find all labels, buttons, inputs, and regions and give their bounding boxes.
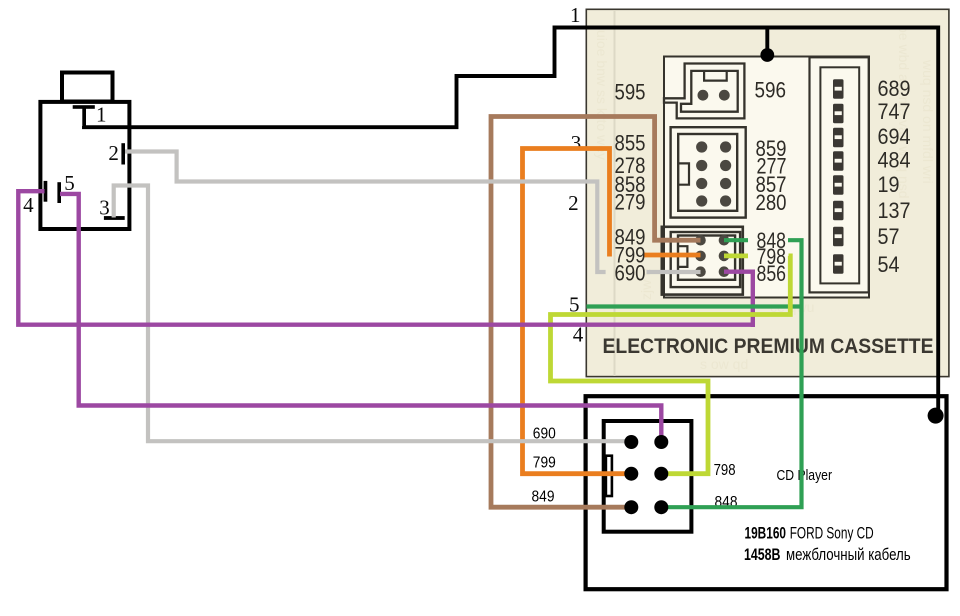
wire 3 grey (P1 pin3 to CD 690) bbox=[114, 186, 632, 442]
pin 279 bbox=[696, 195, 707, 206]
pin 3 (P1) bbox=[104, 216, 125, 220]
svg-text:3: 3 bbox=[99, 196, 110, 220]
connector J1 (595/596 two-pin) outer shell bbox=[664, 64, 744, 119]
pin 595 bbox=[698, 90, 709, 101]
wire 5 purple (P1 pin5 to CD pin) bbox=[60, 194, 661, 441]
svg-text:694: 694 bbox=[878, 124, 911, 149]
svg-text:798: 798 bbox=[714, 462, 736, 479]
pin 280 bbox=[720, 195, 731, 206]
connector J2 keying notch bbox=[678, 163, 689, 184]
svg-text:595: 595 bbox=[615, 80, 646, 105]
CD player box bbox=[586, 396, 947, 589]
svg-text:s ow qd: s ow qd bbox=[700, 356, 748, 372]
wire 799 orange (cassette 799 to CD 799) bbox=[644, 253, 700, 258]
white inner connector panel of cassette unit bbox=[664, 57, 869, 298]
connector J2 inner cavity bbox=[678, 134, 737, 211]
svg-text:5: 5 bbox=[64, 171, 75, 195]
pin 278 bbox=[696, 160, 707, 171]
wire 4 purple riser segment (cassette 856 down) bbox=[724, 272, 753, 327]
svg-text:wuq nsd on mfdl wri: wuq nsd on mfdl wri bbox=[920, 59, 936, 184]
wire 1 junction stub bbox=[765, 28, 769, 50]
pin 857 bbox=[720, 178, 731, 189]
wire 849 brown (cassette 849 to CD 849) bbox=[491, 117, 701, 508]
wire 5 green stub bbox=[587, 304, 804, 308]
connector J4 (8-way edge strip) outer shell bbox=[810, 57, 869, 292]
svg-text:1: 1 bbox=[96, 102, 107, 126]
pin 855 bbox=[696, 141, 707, 152]
node junction on CD box bbox=[928, 408, 944, 424]
pin 5 (P1) bbox=[57, 182, 61, 203]
pin 858 bbox=[696, 178, 707, 189]
connector J3 (6-pin cassette) outermost shell bbox=[662, 227, 743, 295]
svg-text:856: 856 bbox=[757, 261, 787, 286]
svg-text:CD Player: CD Player bbox=[777, 468, 833, 484]
pin 848 bbox=[719, 235, 730, 246]
pin top-right (CD) bbox=[654, 435, 668, 449]
connector P1 top tab bbox=[62, 73, 113, 102]
J4 terminal pins column bbox=[833, 79, 844, 274]
svg-text:689: 689 bbox=[878, 76, 911, 101]
svg-text:FORD Sony CD: FORD Sony CD bbox=[790, 524, 874, 543]
svg-text:690: 690 bbox=[615, 261, 646, 286]
pin 859 bbox=[720, 141, 731, 152]
svg-text:19B160: 19B160 bbox=[745, 524, 787, 543]
pin 690 bbox=[695, 266, 706, 277]
pin 849 bbox=[695, 235, 706, 246]
connector J5 (6-pin CD) shell bbox=[604, 421, 692, 532]
svg-text:3: 3 bbox=[571, 131, 582, 155]
pin 2 (P1) bbox=[121, 143, 125, 164]
cassette unit scanned panel background bbox=[586, 9, 949, 376]
svg-text:19: 19 bbox=[878, 172, 900, 197]
pin 856 bbox=[719, 266, 730, 277]
svg-text:межблочный кабель: межблочный кабель bbox=[786, 545, 911, 564]
pin 798 (CD) bbox=[654, 467, 668, 481]
svg-text:849: 849 bbox=[532, 489, 555, 506]
svg-text:ELECTRONIC PREMIUM CASSETTE: ELECTRONIC PREMIUM CASSETTE bbox=[603, 335, 934, 358]
svg-text:54: 54 bbox=[878, 252, 900, 277]
pin 849 (CD) bbox=[624, 500, 638, 514]
svg-text:1458B: 1458B bbox=[744, 545, 781, 564]
pin 799 (CD) bbox=[624, 467, 638, 481]
svg-text:280: 280 bbox=[756, 190, 787, 215]
connector J2 (8-pin) outer shell bbox=[671, 127, 746, 217]
wire 848 green (cassette 848 to CD 848) bbox=[724, 238, 748, 242]
connector J3 inner cavity bbox=[678, 236, 735, 280]
connector J3 middle shell bbox=[671, 232, 740, 287]
pin 799 bbox=[695, 251, 706, 262]
pin 690 (CD) bbox=[624, 435, 638, 449]
svg-text:57: 57 bbox=[878, 224, 900, 249]
svg-text:596: 596 bbox=[755, 78, 787, 103]
pin 596 bbox=[719, 90, 730, 101]
pin 4 (P1) bbox=[44, 181, 48, 202]
connector J5 keying notch bbox=[606, 456, 612, 496]
connector J1 inner cavity bbox=[681, 71, 738, 112]
connector J3 keying notch bbox=[678, 246, 687, 267]
svg-text:747: 747 bbox=[878, 99, 911, 124]
pin 798 bbox=[719, 251, 730, 262]
wire 2 grey (P1 pin2 to cassette 690) bbox=[125, 152, 606, 273]
pin 848 (CD) bbox=[654, 500, 668, 514]
connector J1 keying notch bbox=[704, 72, 727, 81]
svg-text:2: 2 bbox=[568, 191, 579, 215]
node junction on cassette bbox=[760, 48, 774, 62]
pin 277 bbox=[720, 160, 731, 171]
svg-text:855: 855 bbox=[615, 131, 646, 156]
svg-text:484: 484 bbox=[878, 147, 911, 172]
svg-text:4: 4 bbox=[23, 193, 34, 217]
svg-text:2: 2 bbox=[108, 141, 119, 165]
connector J4 inner cavity bbox=[820, 67, 859, 283]
svg-text:799: 799 bbox=[533, 454, 556, 471]
wire 1 black (P1 pin1 to units) bbox=[84, 28, 938, 412]
wire 4 purple (P1 pin4 run) bbox=[18, 191, 755, 325]
svg-text:1: 1 bbox=[570, 3, 581, 27]
svg-text:279: 279 bbox=[615, 189, 646, 214]
svg-text:137: 137 bbox=[878, 198, 911, 223]
pin 1 (P1) bbox=[73, 105, 95, 109]
wire 798 chartreuse (cassette 798 to CD 798) bbox=[724, 253, 748, 258]
connector P1 (left plug) body bbox=[40, 102, 129, 229]
svg-text:uioe bnw ss krto wey: uioe bnw ss krto wey bbox=[594, 30, 610, 160]
